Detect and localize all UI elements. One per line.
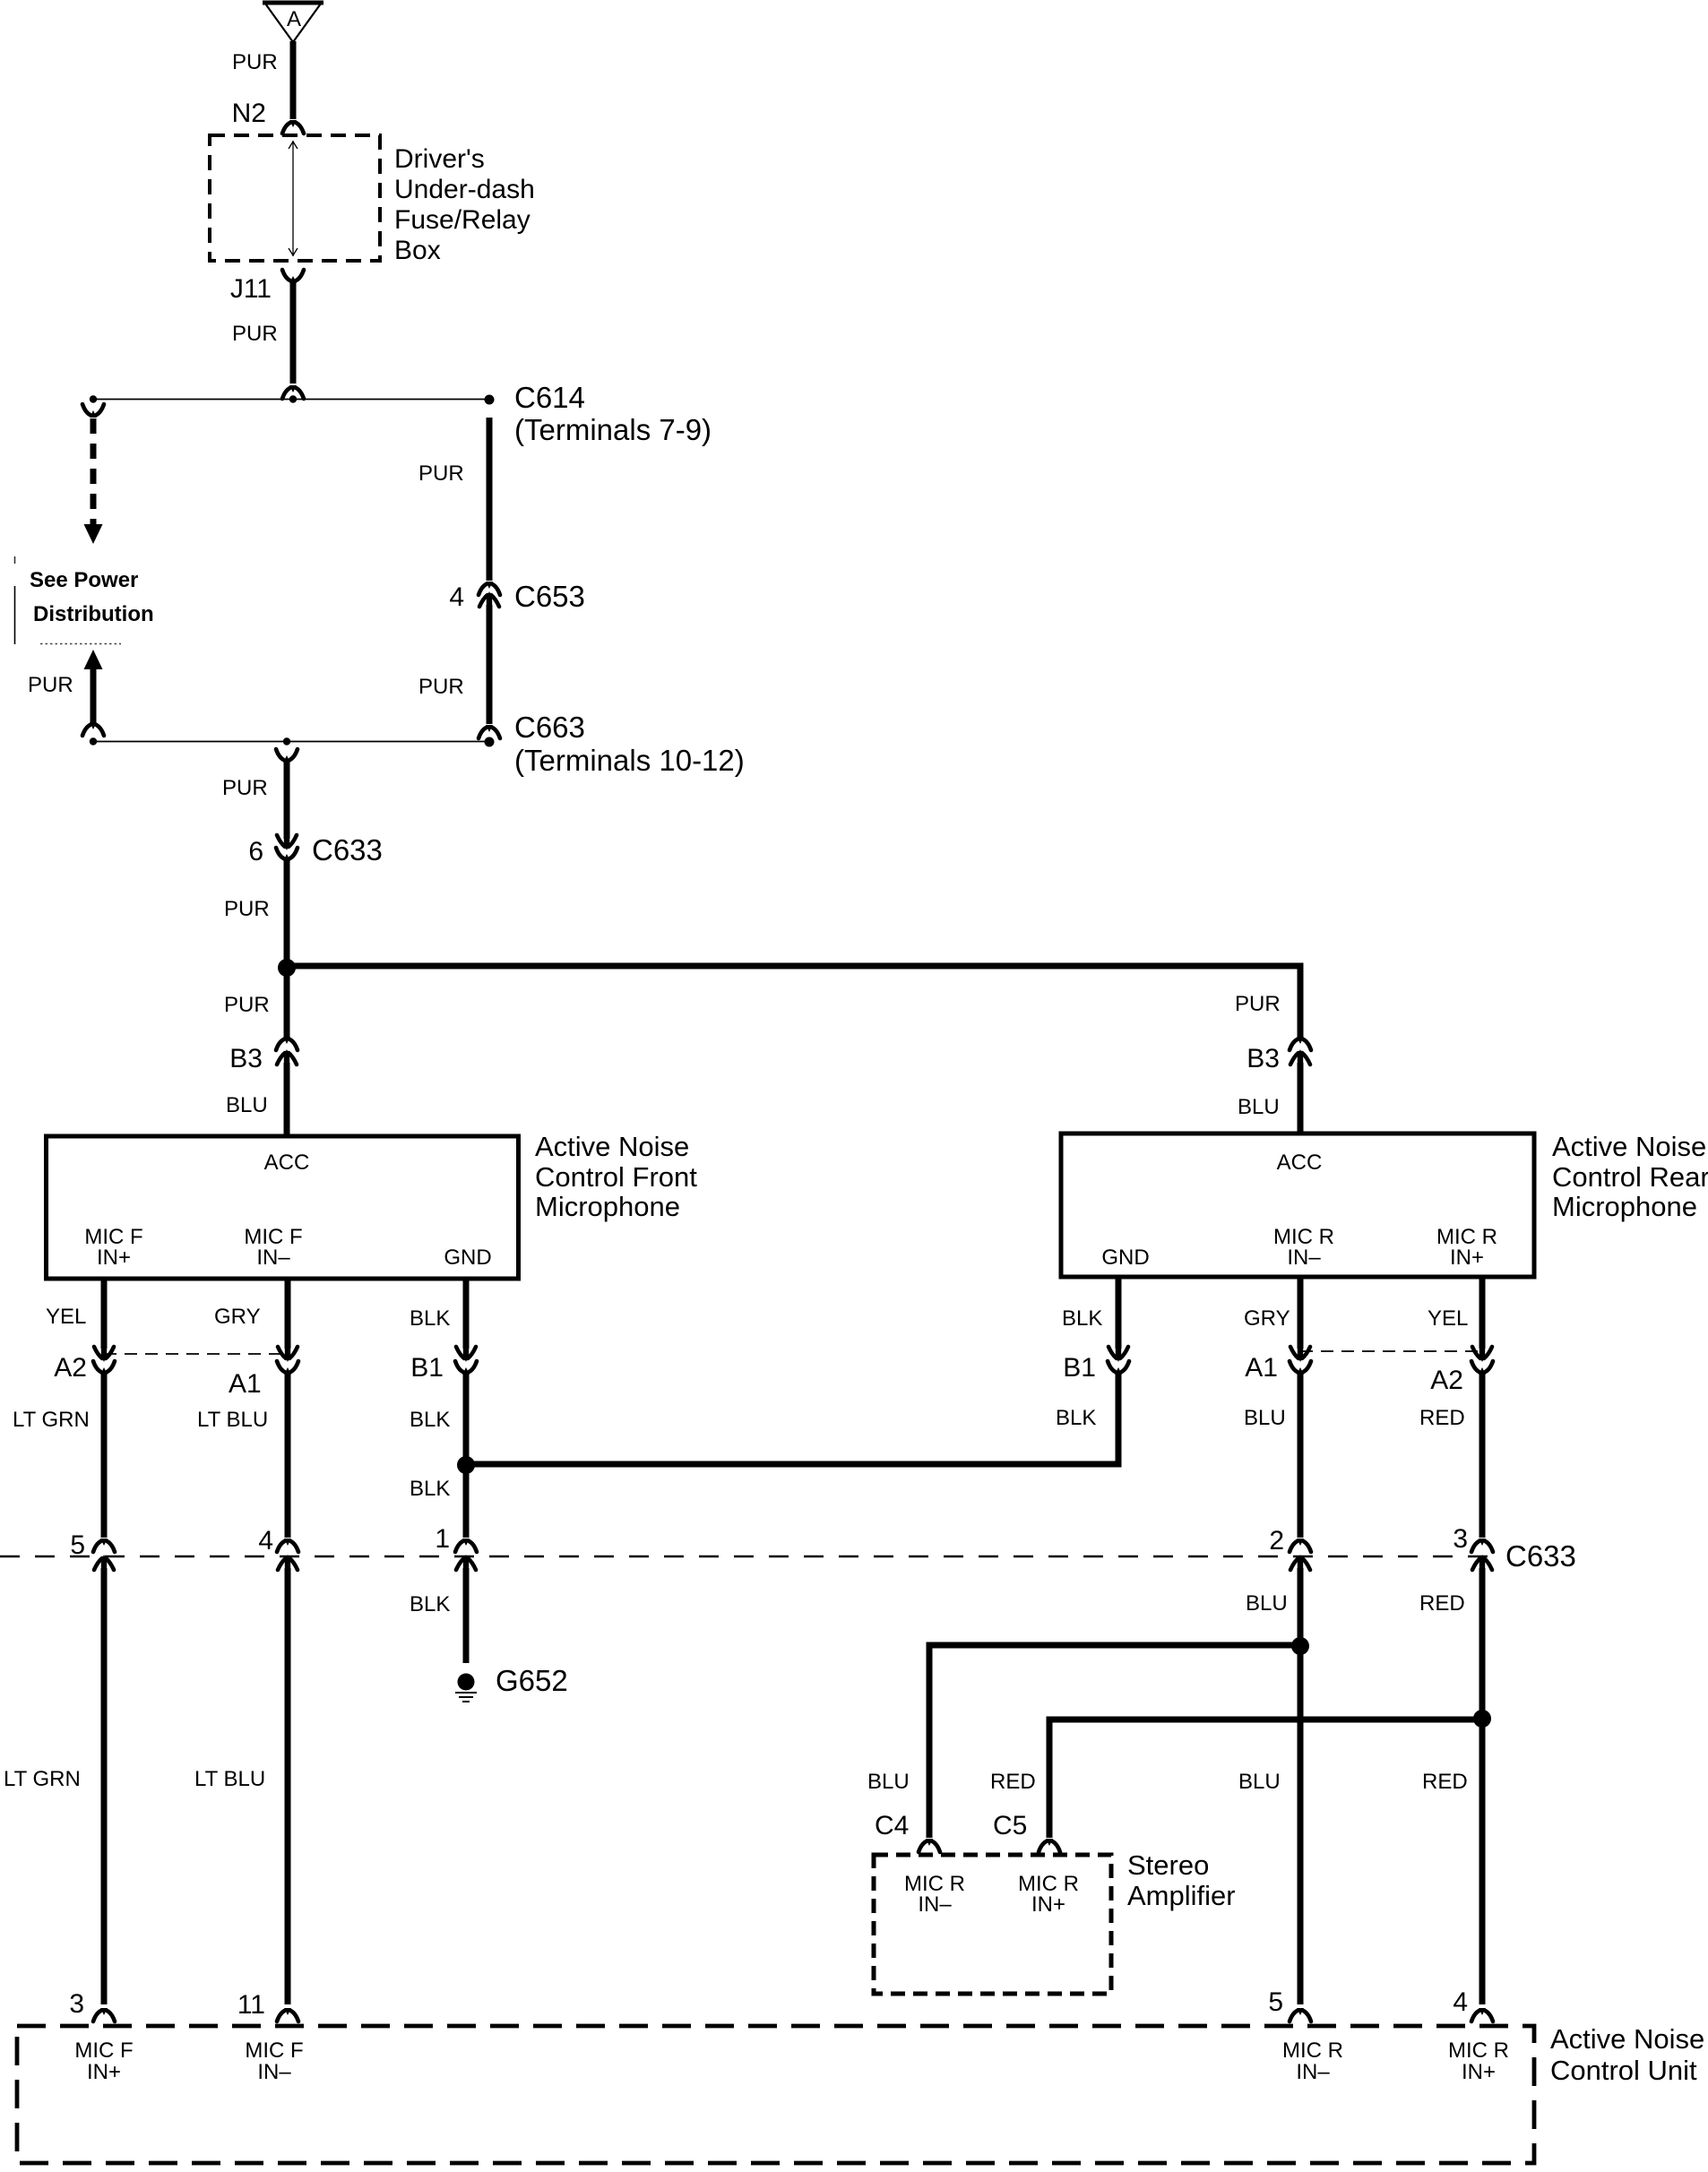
svg-text:IN+: IN+ — [1031, 1892, 1065, 1917]
svg-text:ACC: ACC — [1277, 1151, 1323, 1175]
svg-text:Stereo: Stereo — [1127, 1849, 1209, 1881]
svg-text:MIC F: MIC F — [245, 2038, 303, 2063]
svg-text:IN–: IN– — [1296, 2060, 1330, 2084]
node A (power feed triangle) — [263, 3, 323, 42]
junction dot RED — [1473, 1710, 1491, 1728]
Driver's Under-dash Fuse/Relay Box (dashed) — [210, 135, 380, 261]
svg-text:B3: B3 — [1246, 1044, 1280, 1073]
svg-text:IN+: IN+ — [87, 2060, 121, 2084]
junction dot GND — [457, 1456, 475, 1474]
wire GRY rear — [1298, 1277, 1304, 1349]
svg-text:B3: B3 — [229, 1044, 263, 1073]
svg-text:BLK: BLK — [1062, 1306, 1102, 1331]
wire RED rear lower — [1479, 1568, 1486, 2004]
svg-text:ACC: ACC — [264, 1151, 310, 1175]
Active Noise Control Front Microphone box — [47, 1136, 519, 1279]
svg-text:Box: Box — [394, 236, 441, 265]
svg-text:Control Front: Control Front — [535, 1161, 697, 1193]
svg-text:G652: G652 — [496, 1664, 568, 1697]
svg-text:A2: A2 — [1430, 1366, 1463, 1395]
svg-text:YEL: YEL — [1428, 1306, 1468, 1331]
svg-text:RED: RED — [1419, 1591, 1465, 1616]
connector B1 (rear) — [1108, 1345, 1129, 1375]
svg-text:PUR: PUR — [1235, 992, 1281, 1016]
svg-text:RED: RED — [990, 1770, 1036, 1794]
svg-text:C653: C653 — [514, 580, 585, 613]
connector cup left branch — [82, 404, 104, 418]
dashed link A2-A1 — [104, 1353, 288, 1355]
svg-text:11: 11 — [237, 1990, 265, 2020]
svg-text:BLK: BLK — [410, 1477, 450, 1501]
C633 long dashed connector line — [0, 1556, 1495, 1557]
junction dot — [278, 959, 296, 977]
svg-text:PUR: PUR — [232, 322, 278, 346]
wire BLK (front GND to ground) — [463, 1375, 470, 1538]
dashed wire to power distribution — [91, 418, 97, 527]
connector cup below C663 bus — [276, 749, 298, 763]
svg-text:Distribution: Distribution — [33, 602, 154, 626]
connector A2 (rear) — [1471, 1345, 1493, 1375]
ground G652 — [455, 1674, 477, 1702]
svg-text:BLU: BLU — [226, 1093, 268, 1117]
arrowhead down (see power distribution) — [84, 524, 103, 544]
arrowhead up (from power distribution) — [84, 650, 103, 669]
internal link arrow inside fuse box — [289, 141, 298, 256]
svg-text:GRY: GRY — [1244, 1306, 1290, 1331]
connector J11 (cup below fuse box) — [282, 270, 304, 283]
stray scan tick — [14, 556, 16, 564]
svg-text:Amplifier: Amplifier — [1127, 1880, 1236, 1911]
wire BLU rear lower — [1298, 1568, 1304, 2004]
svg-text:PUR: PUR — [418, 675, 464, 699]
svg-text:(Terminals 10-12): (Terminals 10-12) — [514, 744, 745, 777]
svg-text:1: 1 — [435, 1524, 450, 1554]
wire BLK to ground — [463, 1568, 470, 1663]
wire PUR down to C633 pin 6 — [284, 763, 290, 839]
svg-text:LT BLU: LT BLU — [194, 1767, 265, 1791]
svg-text:LT GRN: LT GRN — [4, 1767, 81, 1791]
connector cup MIC R IN- (ANC) — [1290, 2008, 1311, 2021]
svg-text:PUR: PUR — [28, 673, 73, 697]
svg-text:PUR: PUR — [224, 993, 270, 1017]
svg-text:4: 4 — [1453, 1987, 1468, 2017]
svg-text:BLK: BLK — [410, 1306, 450, 1331]
svg-text:4: 4 — [258, 1526, 273, 1556]
label Driver's Under-dash Fuse/Relay Box — [394, 144, 535, 265]
connector C633 pin 2 (rear) — [1290, 1538, 1311, 1572]
connector C633 pin 1 — [455, 1538, 477, 1572]
label Active Noise Control Front Microphone — [535, 1131, 697, 1222]
junction dot BLU — [1291, 1637, 1309, 1655]
svg-text:BLU: BLU — [1238, 1095, 1280, 1119]
svg-text:MIC R: MIC R — [1282, 2038, 1343, 2063]
svg-text:BLK: BLK — [410, 1408, 450, 1432]
svg-text:Active Noise: Active Noise — [535, 1131, 689, 1162]
svg-text:2: 2 — [1269, 1526, 1284, 1556]
svg-text:Fuse/Relay: Fuse/Relay — [394, 205, 531, 235]
svg-text:IN–: IN– — [256, 1245, 290, 1270]
svg-text:GND: GND — [1101, 1245, 1149, 1270]
svg-text:Driver's: Driver's — [394, 144, 485, 174]
wire LT BLU — [285, 1375, 291, 1538]
wire LT GRN lower — [101, 1568, 108, 2004]
svg-text:RED: RED — [1422, 1770, 1468, 1794]
C663 bus line — [93, 741, 489, 743]
connector cup MIC F IN- (ANC) — [277, 2008, 298, 2021]
svg-text:IN–: IN– — [1287, 1245, 1321, 1270]
svg-text:C663: C663 — [514, 711, 585, 744]
Active Noise Control Rear Microphone box — [1061, 1133, 1534, 1277]
connector C653 — [479, 582, 500, 608]
wire RED rear — [1479, 1375, 1486, 1538]
svg-text:Under-dash: Under-dash — [394, 175, 535, 204]
svg-text:IN–: IN– — [257, 2060, 291, 2084]
svg-text:Active Noise: Active Noise — [1552, 1131, 1706, 1162]
svg-text:C614: C614 — [514, 381, 585, 414]
wire BLK from front GND — [463, 1279, 470, 1349]
svg-text:IN+: IN+ — [1450, 1245, 1484, 1270]
svg-text:Active Noise: Active Noise — [1550, 2023, 1704, 2055]
connector C4 cup — [919, 1839, 940, 1852]
svg-text:GRY: GRY — [214, 1305, 261, 1329]
connector B1 (front) — [455, 1345, 477, 1375]
label Stereo Amplifier — [1127, 1849, 1236, 1911]
junction dots on C663 bus — [90, 737, 97, 745]
wire RED branch to stereo amp C5 — [1049, 1719, 1482, 1838]
svg-text:5: 5 — [70, 1530, 85, 1560]
svg-text:A2: A2 — [54, 1353, 87, 1383]
svg-text:Control Rear: Control Rear — [1552, 1161, 1708, 1193]
wire PUR from C633 to junction and B3 — [284, 861, 290, 1037]
svg-text:BLK: BLK — [410, 1592, 450, 1616]
svg-text:B1: B1 — [1063, 1353, 1096, 1383]
svg-text:LT GRN: LT GRN — [13, 1408, 90, 1432]
svg-text:C5: C5 — [993, 1811, 1027, 1840]
svg-text:PUR: PUR — [232, 50, 278, 74]
svg-text:(Terminals 7-9): (Terminals 7-9) — [514, 413, 712, 446]
wire BLK link to rear GND — [466, 1375, 1118, 1464]
svg-text:Microphone: Microphone — [535, 1191, 680, 1222]
wire YEL from MIC F IN+ — [101, 1279, 108, 1349]
wire LT GRN — [101, 1375, 108, 1538]
svg-text:3: 3 — [69, 1989, 84, 2019]
svg-text:Control Unit: Control Unit — [1550, 2055, 1697, 2086]
connector cup above C663 bus (left) — [82, 722, 104, 736]
svg-text:See Power: See Power — [30, 568, 138, 592]
svg-text:5: 5 — [1268, 1987, 1283, 2017]
connector A1 (front) — [277, 1345, 298, 1375]
svg-text:PUR: PUR — [224, 897, 270, 921]
svg-text:RED: RED — [1419, 1406, 1465, 1430]
svg-text:BLU: BLU — [867, 1770, 910, 1794]
wire BLU branch to stereo amp C4 — [929, 1645, 1300, 1838]
svg-text:BLU: BLU — [1238, 1770, 1281, 1794]
connector B3 (left) — [276, 1037, 298, 1066]
svg-text:YEL: YEL — [46, 1305, 86, 1329]
svg-text:PUR: PUR — [418, 461, 464, 486]
svg-text:6: 6 — [248, 837, 263, 866]
svg-text:LT BLU: LT BLU — [197, 1408, 268, 1432]
svg-text:N2: N2 — [232, 99, 266, 128]
svg-text:MIC R: MIC R — [1448, 2038, 1509, 2063]
wire PUR C653 to C663 — [487, 605, 493, 724]
connector cup MIC R IN+ (ANC) — [1471, 2008, 1493, 2021]
connector B3 (right) — [1290, 1037, 1311, 1066]
connector N2 (cup into fuse box) — [282, 120, 304, 134]
svg-text:BLK: BLK — [1056, 1406, 1096, 1430]
wire LT BLU lower — [285, 1568, 291, 2004]
svg-text:B1: B1 — [410, 1353, 444, 1383]
svg-text:GND: GND — [444, 1245, 491, 1270]
wire BLK rear GND down — [1116, 1375, 1122, 1461]
connector C663 cup — [479, 725, 500, 738]
svg-text:3: 3 — [1453, 1524, 1468, 1554]
svg-text:4: 4 — [449, 582, 464, 612]
svg-text:A1: A1 — [229, 1369, 262, 1399]
connector C5 cup — [1039, 1839, 1060, 1852]
wire BLU rear — [1298, 1375, 1304, 1538]
wire YEL rear — [1479, 1277, 1486, 1349]
Stereo Amplifier box (dashed) — [874, 1855, 1111, 1994]
svg-text:IN–: IN– — [918, 1892, 952, 1917]
svg-text:IN+: IN+ — [1462, 2060, 1496, 2084]
svg-text:A1: A1 — [1245, 1353, 1278, 1383]
svg-text:PUR: PUR — [222, 776, 268, 800]
connector C633 pin 5 (front) — [93, 1538, 115, 1572]
svg-text:MIC F: MIC F — [74, 2038, 133, 2063]
svg-text:C4: C4 — [875, 1811, 909, 1840]
wire BLU into front mic — [284, 1063, 290, 1136]
wire PUR C614 to C653 — [487, 418, 493, 581]
svg-text:J11: J11 — [230, 274, 272, 304]
wire PUR branch to rear microphone — [287, 966, 1300, 1037]
connector cup at C614 bus — [282, 385, 304, 399]
wire BLU into rear mic — [1298, 1063, 1304, 1133]
svg-text:C633: C633 — [1505, 1539, 1576, 1573]
connector C633 pin 4 (front) — [277, 1538, 298, 1572]
connector C633 pin 6 — [276, 833, 298, 861]
svg-text:C633: C633 — [312, 833, 383, 866]
wire PUR from triangle A to N2 — [290, 41, 297, 119]
svg-text:Microphone: Microphone — [1552, 1191, 1697, 1222]
wire PUR up-arrow shaft — [91, 667, 97, 722]
connector A2 (front) — [93, 1345, 115, 1375]
label Active Noise Control Unit — [1550, 2023, 1704, 2086]
connector cup MIC F IN+ (ANC) — [93, 2008, 115, 2021]
junction dots on C614 bus — [90, 395, 97, 402]
connector C633 pin 3 (rear) — [1471, 1538, 1493, 1572]
dashed link A1-A2 (rear) — [1300, 1350, 1482, 1352]
svg-text:A: A — [287, 7, 301, 31]
wire GRY from MIC F IN- — [285, 1279, 291, 1349]
connector A1 (rear) — [1290, 1345, 1311, 1375]
wire PUR from J11 down — [290, 283, 297, 384]
svg-text:BLU: BLU — [1244, 1406, 1286, 1430]
svg-text:IN+: IN+ — [97, 1245, 131, 1270]
label See Power Distribution — [15, 568, 154, 644]
Active Noise Control Unit box (dashed) — [17, 2026, 1534, 2163]
svg-text:BLU: BLU — [1246, 1591, 1288, 1616]
wire BLK rear GND — [1116, 1277, 1122, 1349]
label Active Noise Control Rear Microphone — [1552, 1131, 1708, 1222]
C614 bus line — [93, 399, 489, 401]
